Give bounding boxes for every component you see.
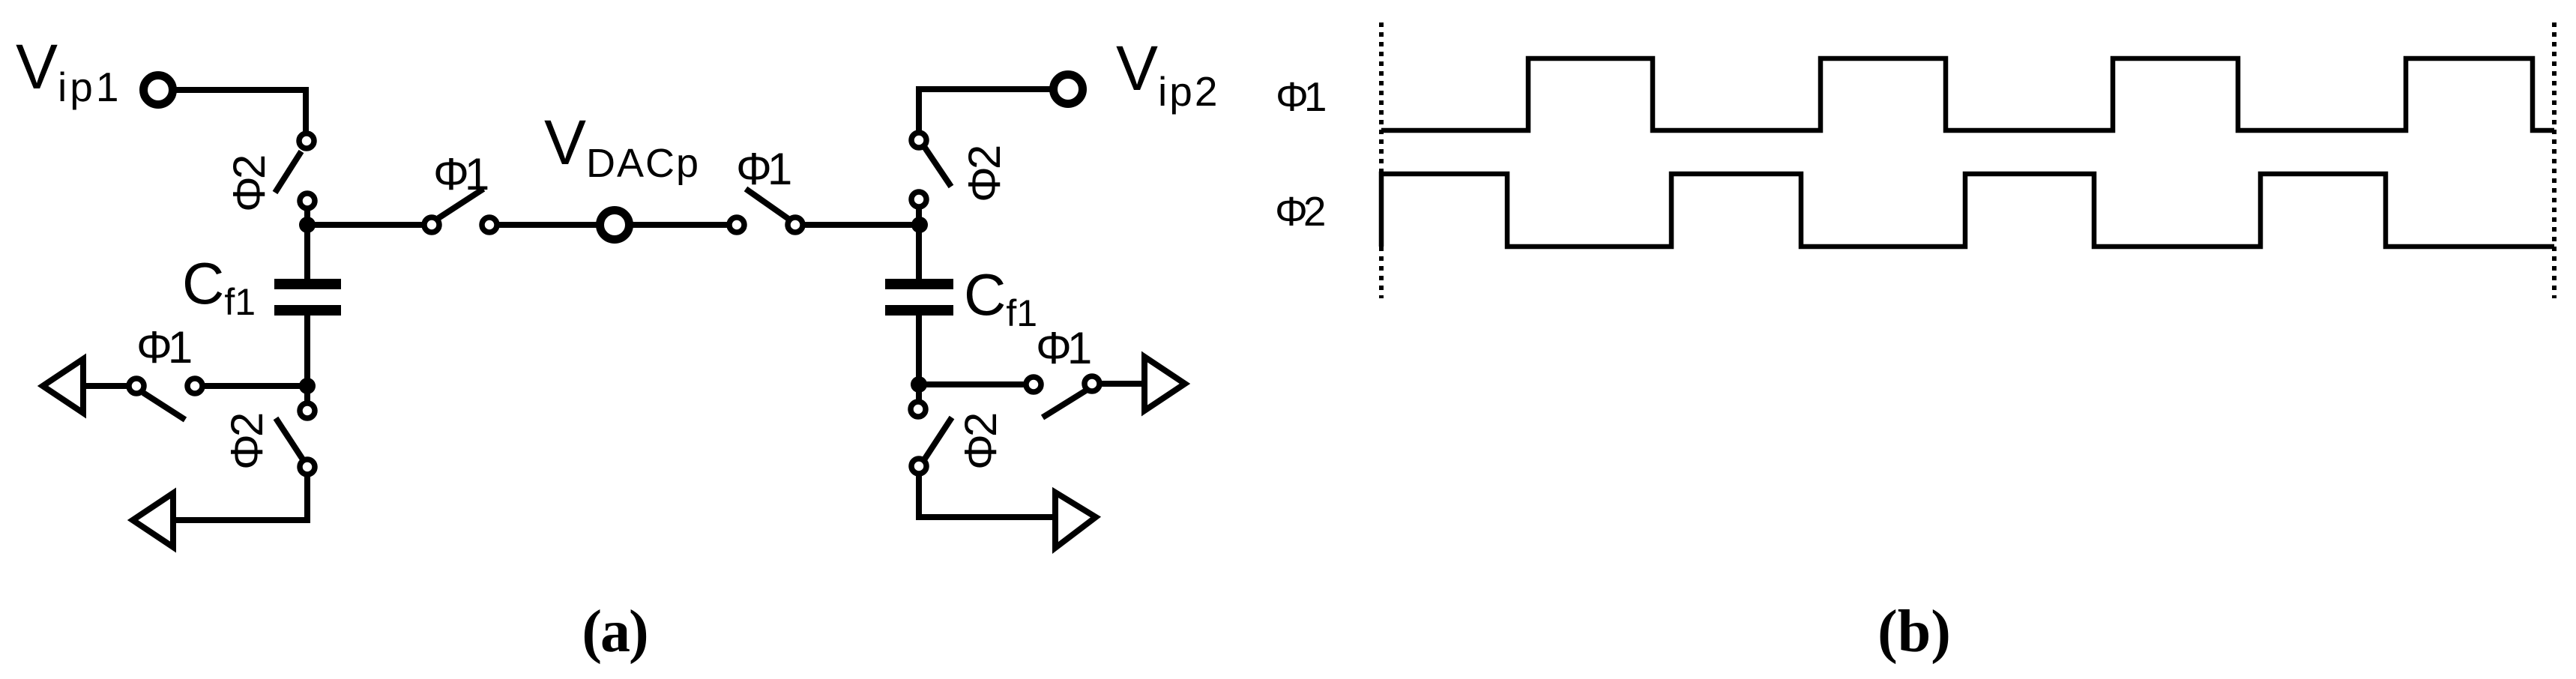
capacitor Cf1 left plates (274, 279, 341, 316)
wire Vip1 to node A (175, 90, 306, 133)
junction node D (911, 376, 927, 393)
terminal Vip2 (1054, 75, 1083, 104)
junction node B (911, 217, 928, 233)
CM triangle upper-right (1144, 357, 1185, 411)
wire node C to switch S5 (204, 383, 307, 389)
wire node B vertical to right Cf1 top (916, 209, 922, 279)
svg-text:Φ1: Φ1 (1276, 73, 1325, 120)
switch S5 (phi1) arm (143, 393, 185, 420)
CM triangle upper-left (43, 359, 83, 413)
wire node A vertical to Cf1 top (304, 209, 310, 279)
svg-text:Φ1: Φ1 (736, 144, 791, 194)
svg-text:Φ1: Φ1 (136, 322, 191, 372)
CM triangle lower-left (133, 493, 173, 547)
wire S8 to bottom-right CM triangle (919, 475, 1056, 517)
svg-text:Cf1: Cf1 (964, 262, 1037, 334)
wire S4 to Vip2 (919, 89, 1052, 132)
switch S5 contact left (129, 378, 144, 393)
wire S3 to node B (803, 222, 920, 228)
switch S5 contact right (187, 378, 202, 393)
wire node D to switch S7 (919, 381, 1025, 387)
wire S5 to left CM triangle (86, 383, 127, 389)
switch S7 (phi1) arm (1043, 390, 1086, 417)
junction node C (299, 378, 316, 394)
svg-text:Φ2: Φ2 (959, 146, 1010, 202)
svg-text:(b): (b) (1877, 599, 1951, 665)
switch S2 contact left (424, 217, 439, 232)
svg-text:Vip2: Vip2 (1116, 33, 1219, 115)
switch S2 contact right (482, 217, 497, 232)
switch S6 contact bottom (300, 459, 315, 474)
switch S7 contact right (1085, 376, 1100, 391)
svg-text:Φ2: Φ2 (224, 156, 274, 212)
switch S8 contact top (911, 402, 926, 417)
switch S3 (phi1) arm (746, 189, 788, 219)
svg-text:Φ2: Φ2 (1275, 188, 1324, 235)
switch S6 contact top (300, 403, 315, 418)
timing right dotted boundary (2552, 22, 2557, 298)
wire S7 to right CM triangle (1101, 381, 1145, 387)
switch S1 contact bottom (300, 193, 315, 208)
svg-text:(a): (a) (582, 599, 647, 665)
wire S6 to bottom-left CM triangle (176, 476, 307, 520)
svg-text:Cf1: Cf1 (182, 250, 256, 323)
wire right Cf1 bottom to node D (916, 315, 922, 400)
switch S4 contact top (911, 133, 926, 148)
capacitor Cf1 right plates (885, 279, 953, 316)
wire VDACp to S3 (631, 222, 730, 228)
clock waveform phi1 (1381, 58, 2554, 130)
switch S4 contact bottom (911, 192, 926, 207)
switch S8 (phi2) arm (925, 417, 952, 459)
CM triangle lower-right (1055, 492, 1096, 548)
switch S1 (phi2) arm (275, 151, 301, 193)
svg-text:VDACp: VDACp (544, 107, 700, 186)
junction node A (299, 217, 316, 233)
svg-text:Φ1: Φ1 (433, 149, 488, 199)
svg-text:Φ1: Φ1 (1036, 323, 1091, 373)
switch S3 contact right (788, 217, 803, 232)
switch S1 contact top (299, 133, 314, 148)
terminal VDACp (600, 211, 630, 240)
wire node A to switch S2 (307, 222, 425, 228)
switch S2 (phi1) arm (438, 189, 483, 218)
switch S8 contact bottom (911, 459, 926, 474)
timing left dotted boundary (1379, 22, 1384, 298)
switch S6 (phi2) arm (276, 418, 303, 459)
clock waveform phi2 (1381, 174, 2554, 247)
switch S3 contact left (729, 217, 744, 232)
switch S7 contact left (1026, 377, 1041, 392)
svg-text:Φ2: Φ2 (956, 414, 1006, 470)
svg-text:Φ2: Φ2 (222, 414, 272, 470)
wire left Cf1 bottom to node C (304, 316, 310, 402)
wire S2 to VDACp (498, 222, 598, 228)
switch S4 (phi2) arm (925, 148, 951, 187)
svg-text:Vip1: Vip1 (16, 31, 121, 110)
terminal Vip1 (144, 76, 173, 105)
